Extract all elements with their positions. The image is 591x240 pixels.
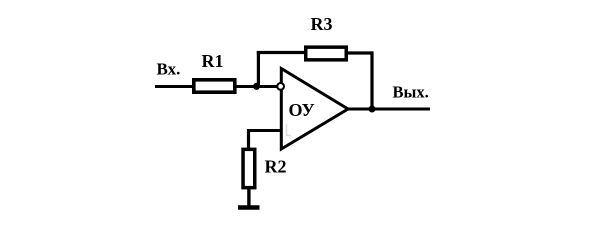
resistor R3 <box>306 47 347 60</box>
svg-text:R1: R1 <box>202 51 224 71</box>
wire: R3 to right riser <box>346 51 374 54</box>
wire: down from non-inverting input to R2 <box>247 129 250 149</box>
inversion bubble on op-amp input <box>277 83 284 90</box>
wire: input from Вх. to R1 <box>155 85 194 88</box>
faint artifact mark inside triangle <box>287 124 292 136</box>
resistor R1 <box>194 80 235 92</box>
node B: output junction <box>369 106 376 113</box>
svg-text:ОУ: ОУ <box>289 100 315 120</box>
wire: R1 to op-amp inverting input <box>235 85 281 88</box>
ground <box>238 205 260 210</box>
node A: junction of R1, R3 riser and op-amp input <box>253 83 260 90</box>
wire: top feedback line to R3 <box>257 51 306 54</box>
svg-text:Вх.: Вх. <box>157 60 181 79</box>
wire: riser from node A up to feedback line <box>257 51 260 88</box>
svg-text:R3: R3 <box>311 14 333 34</box>
wire: R2 to ground <box>247 188 250 207</box>
wire: output from op-amp apex to Вых. <box>347 108 430 111</box>
svg-text:Вых.: Вых. <box>393 83 429 102</box>
op-amp U1 (ОУ) triangle <box>281 69 348 150</box>
svg-text:R2: R2 <box>265 157 287 177</box>
wire: op-amp non-inverting input horizontal <box>249 129 282 132</box>
resistor R2 <box>243 149 255 187</box>
wire: right riser down to output node <box>370 51 373 110</box>
